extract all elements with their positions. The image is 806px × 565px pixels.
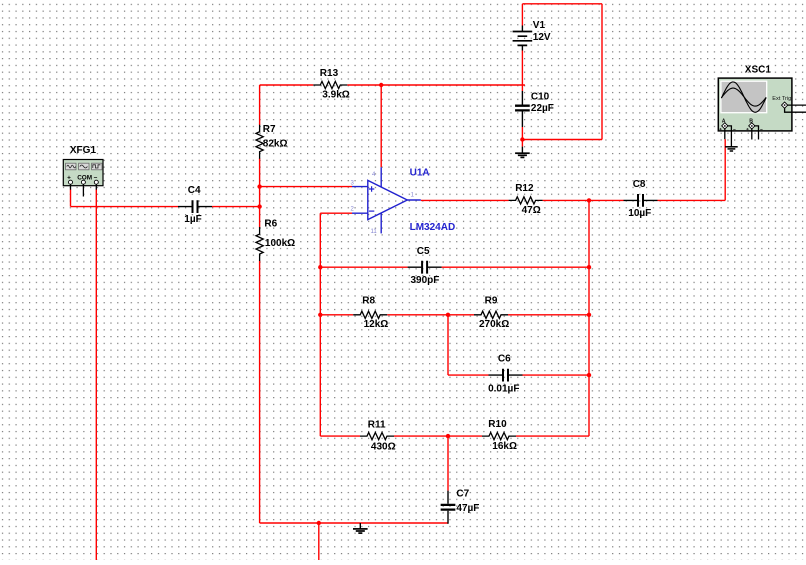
wire — [787, 104, 806, 106]
sine button — [66, 163, 76, 170]
op-amp U1A LM324AD — [350, 167, 455, 235]
resistor R12 — [509, 183, 543, 216]
wire — [601, 4, 603, 140]
plus input mark — [369, 186, 374, 191]
svg-text:100kΩ: 100kΩ — [265, 238, 295, 249]
wire — [521, 51, 523, 92]
svg-text:C10: C10 — [531, 92, 550, 103]
wire — [522, 139, 602, 141]
svg-text:10µF: 10µF — [628, 208, 651, 219]
ground — [515, 147, 530, 158]
wire — [516, 435, 589, 437]
junction — [257, 204, 261, 208]
svg-text:R9: R9 — [485, 296, 498, 307]
svg-text:V1: V1 — [533, 20, 546, 31]
junction — [520, 137, 524, 141]
svg-text:270kΩ: 270kΩ — [479, 319, 509, 330]
wire — [543, 199, 589, 201]
wire — [447, 436, 449, 491]
wire — [260, 522, 448, 524]
minus input mark — [369, 210, 374, 212]
svg-text:82kΩ: 82kΩ — [263, 138, 288, 149]
wire — [319, 213, 321, 436]
svg-text:16kΩ: 16kΩ — [492, 441, 517, 452]
pin 11 power — [380, 213, 382, 234]
terminal COM — [81, 180, 85, 184]
wire — [260, 84, 314, 86]
wire — [380, 85, 382, 167]
wire — [70, 184, 72, 189]
wire — [523, 374, 590, 376]
wire — [347, 84, 525, 86]
resistor R10 — [482, 419, 517, 452]
wire — [754, 126, 758, 140]
scope screen — [721, 81, 767, 113]
instrument XSC1 oscilloscope — [718, 64, 806, 151]
ground — [353, 523, 368, 533]
wire — [95, 184, 97, 189]
svg-text:22µF: 22µF — [531, 103, 554, 114]
svg-text:Ext Trig: Ext Trig — [772, 96, 791, 102]
wire — [751, 128, 753, 139]
terminal B — [749, 123, 755, 129]
svg-text:R10: R10 — [488, 419, 507, 430]
wire — [320, 212, 352, 214]
wire — [508, 314, 589, 316]
capacitor C6 0.01uF — [488, 354, 522, 395]
wire — [82, 184, 84, 196]
junction — [587, 313, 591, 317]
terminal + — [69, 180, 73, 184]
wire — [421, 199, 509, 201]
wire — [260, 186, 352, 188]
junction — [317, 521, 321, 525]
junction — [446, 313, 450, 317]
wire — [387, 314, 474, 316]
svg-text:1µF: 1µF — [184, 214, 201, 225]
wire — [320, 266, 407, 268]
instrument XFG1 function generator — [63, 145, 103, 197]
polarity marks — [719, 128, 762, 130]
wire — [320, 435, 360, 437]
resistor R6 — [256, 218, 295, 261]
resistor R11 — [360, 419, 396, 452]
capacitor C10 22uF — [515, 91, 554, 127]
junction — [257, 184, 261, 188]
wire — [521, 4, 523, 26]
resistor R9 — [474, 296, 509, 331]
wire — [658, 199, 726, 201]
junction — [587, 373, 591, 377]
triangle button — [79, 163, 89, 170]
terminal A — [722, 123, 728, 129]
junction — [446, 434, 450, 438]
svg-text:R8: R8 — [362, 296, 375, 307]
wire — [70, 190, 72, 207]
capacitor C7 47uF — [441, 488, 480, 523]
svg-text:11: 11 — [371, 229, 378, 235]
wire — [724, 139, 726, 200]
capacitor C4 1uF — [178, 185, 212, 225]
junction — [379, 83, 383, 87]
terminal Ext Trig — [781, 102, 787, 108]
svg-text:R13: R13 — [320, 68, 339, 79]
svg-text:47Ω: 47Ω — [522, 205, 541, 216]
wire — [521, 127, 523, 147]
svg-text:C6: C6 — [498, 354, 511, 365]
svg-text:3.9kΩ: 3.9kΩ — [322, 89, 349, 100]
wire — [442, 266, 589, 268]
wire — [588, 200, 590, 436]
svg-text:XSC1: XSC1 — [745, 64, 772, 75]
svg-text:12kΩ: 12kΩ — [364, 319, 389, 330]
svg-text:U1A: U1A — [410, 168, 430, 179]
resistor R7 — [256, 124, 288, 159]
waveform trace A — [721, 82, 766, 112]
ground — [725, 147, 738, 151]
capacitor C8 10uF — [624, 179, 658, 219]
wire — [448, 374, 489, 376]
svg-text:430Ω: 430Ω — [371, 441, 396, 452]
square button — [92, 163, 102, 170]
svg-text:12V: 12V — [533, 32, 551, 43]
wire — [724, 128, 726, 139]
capacitor C5 390pF — [408, 246, 442, 286]
wire — [71, 206, 179, 208]
svg-text:R11: R11 — [368, 419, 386, 430]
svg-text:390pF: 390pF — [411, 275, 440, 286]
svg-text:XFG1: XFG1 — [70, 145, 97, 156]
junction — [318, 313, 322, 317]
wire — [394, 435, 482, 437]
wire — [320, 314, 353, 316]
wire — [259, 85, 261, 125]
wire — [95, 190, 97, 561]
svg-text:R7: R7 — [263, 124, 276, 135]
resistor R8 — [353, 296, 388, 331]
wire — [259, 261, 261, 523]
wire — [785, 108, 806, 113]
resistor R13 — [313, 68, 349, 101]
svg-text:LM324AD: LM324AD — [410, 222, 456, 233]
wire — [589, 199, 624, 201]
svg-text:47µF: 47µF — [456, 503, 479, 514]
svg-text:C8: C8 — [633, 179, 646, 190]
svg-text:C7: C7 — [456, 488, 469, 499]
svg-text:0.01µF: 0.01µF — [488, 383, 519, 394]
wire — [212, 206, 260, 208]
waveform trace B — [721, 88, 766, 106]
wire — [259, 158, 261, 227]
junction — [318, 265, 322, 269]
battery V1 12V — [513, 20, 551, 51]
junction — [587, 198, 591, 202]
wire — [447, 315, 449, 375]
svg-text:C5: C5 — [417, 246, 430, 257]
svg-text:C4: C4 — [188, 185, 201, 196]
pin 4 power — [380, 167, 382, 187]
junction — [587, 265, 591, 269]
svg-text:R12: R12 — [515, 183, 534, 194]
wire — [727, 126, 731, 147]
wire — [318, 523, 320, 560]
wire — [522, 3, 602, 5]
terminal - — [94, 180, 98, 184]
svg-text:R6: R6 — [264, 218, 277, 229]
